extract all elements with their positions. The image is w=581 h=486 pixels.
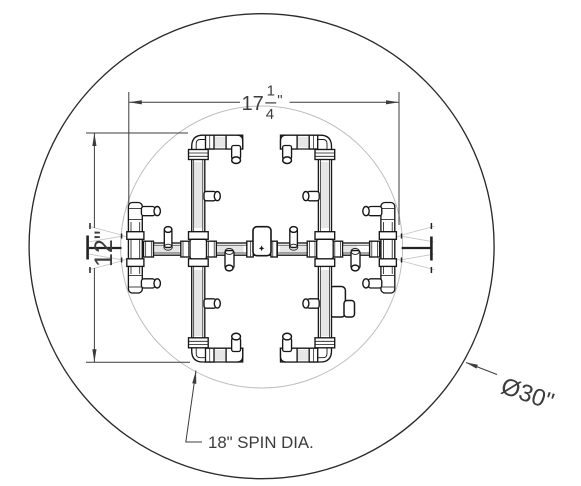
- svg-text:17: 17: [242, 93, 264, 115]
- svg-text:1: 1: [267, 83, 275, 100]
- svg-text:18" SPIN DIA.: 18" SPIN DIA.: [208, 433, 314, 452]
- svg-text:4: 4: [266, 106, 274, 123]
- svg-text:": ": [277, 92, 282, 109]
- svg-text:12": 12": [90, 230, 118, 267]
